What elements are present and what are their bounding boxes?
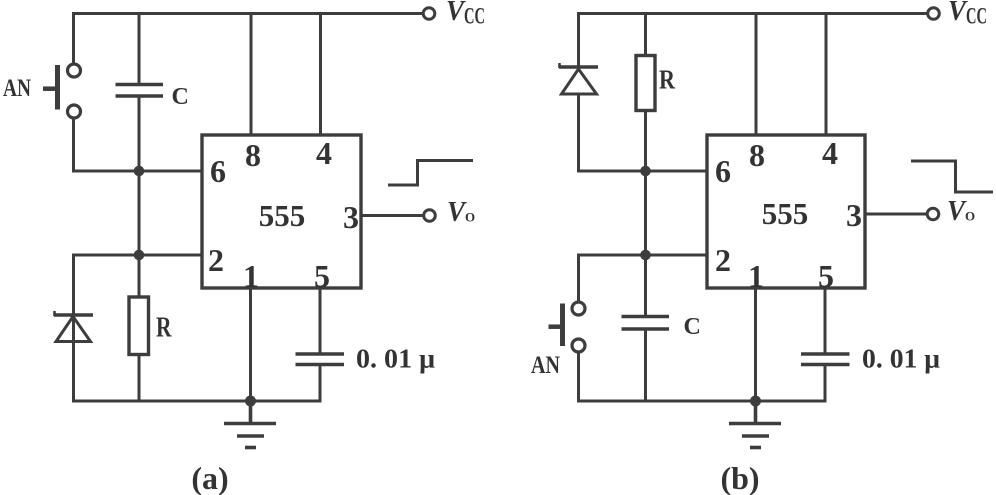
diode VD (b) [559, 63, 598, 94]
wire: R to bottom rail (a) [138, 355, 141, 402]
svg-text:AN: AN [531, 352, 560, 379]
wire: pin 3 output (b) [866, 213, 928, 216]
op-amp 555 box (b) [707, 135, 865, 288]
svg-text:C: C [684, 314, 701, 340]
svg-text:0. 01 μ: 0. 01 μ [356, 343, 435, 374]
capacitor 0.01u (b) [801, 354, 850, 401]
resistor R (b) [636, 56, 655, 111]
svg-text:3: 3 [846, 197, 862, 233]
wire: button to pin6 line (a) [72, 117, 75, 173]
svg-text:6: 6 [210, 153, 226, 189]
svg-text:5: 5 [314, 258, 330, 294]
wire: bottom rail (b) [577, 400, 827, 403]
junction dot pin6/C (a) [134, 166, 145, 177]
wire: pin 4 vertical (a) [319, 14, 322, 136]
waveform step-up (a) [388, 161, 473, 186]
wire: R down through junctions to cap C (b) [644, 111, 647, 317]
label Vcc (b) [948, 0, 987, 29]
wire: pin 5 vertical (b) [824, 288, 827, 354]
pin labels 555 (b) [715, 135, 862, 294]
resistor R branch top (b) [644, 14, 647, 56]
svg-text:0. 01 μ: 0. 01 μ [862, 343, 940, 374]
svg-text:O: O [965, 209, 975, 224]
pushbutton AN (a) [43, 64, 81, 118]
label Vcc (a) [446, 0, 485, 29]
terminal VCC (b) [928, 8, 940, 20]
label Vo (b) [947, 196, 975, 227]
ground (a) [224, 401, 276, 448]
capacitor C (b) [622, 317, 670, 402]
resistor R (a) [129, 297, 149, 355]
wire: pin 1 vertical (b) [754, 288, 757, 401]
wire: pin 8 vertical (a) [250, 14, 253, 136]
junction dot ground (b) [750, 396, 761, 407]
wire: pin 2 horizontal (b) [577, 254, 708, 257]
terminal Vo (a) [424, 210, 436, 222]
svg-text:R: R [659, 65, 675, 95]
waveform step-down (b) [911, 161, 993, 192]
wire: pin 2 horizontal (a) [72, 254, 203, 257]
svg-text:555: 555 [762, 196, 809, 231]
wire: bottom rail (a) [72, 400, 322, 403]
svg-text:CC: CC [966, 4, 987, 29]
wire: left rail top to button (a) [72, 12, 75, 64]
wire: pin 1 vertical (a) [249, 288, 252, 401]
svg-text:555: 555 [259, 198, 306, 233]
svg-text:2: 2 [208, 242, 224, 278]
svg-text:4: 4 [316, 135, 332, 171]
svg-text:1: 1 [748, 258, 764, 294]
capacitor 0.01u (a) [296, 354, 345, 401]
pin labels 555 (a) [208, 135, 359, 294]
svg-text:8: 8 [749, 137, 765, 173]
wire: left drop to diode (a) [72, 254, 75, 403]
svg-text:(b): (b) [720, 460, 759, 495]
wire: left rail to diode (b) [577, 12, 580, 67]
svg-text:CC: CC [464, 4, 485, 29]
op-amp 555 box (a) [202, 135, 361, 288]
ground (b) [729, 401, 781, 448]
diode VD (a) [54, 311, 93, 342]
wire: top VCC rail (b) [577, 12, 928, 15]
svg-text:6: 6 [715, 153, 731, 189]
terminal Vo (b) [927, 208, 939, 220]
pushbutton AN (b) [549, 302, 586, 352]
svg-text:AN: AN [3, 75, 31, 102]
wire: pin 8 vertical (b) [755, 14, 758, 136]
svg-text:O: O [465, 210, 475, 225]
svg-text:2: 2 [715, 242, 731, 278]
terminal VCC (a) [423, 8, 435, 20]
label Vo (a) [447, 197, 475, 228]
junction dot pin6/R (b) [640, 166, 651, 177]
wire: button to bottom rail (b) [577, 351, 580, 403]
wire: pin 3 output (a) [361, 214, 423, 217]
svg-text:5: 5 [818, 258, 834, 294]
svg-text:R: R [156, 312, 172, 344]
wire: top VCC rail (a) [72, 12, 423, 15]
svg-text:(a): (a) [191, 460, 228, 495]
svg-text:8: 8 [245, 137, 261, 173]
wire: pin 6 horizontal (a) [72, 170, 203, 173]
wire: pin2 corner down to button (b) [577, 254, 580, 303]
junction dot pin2/R (a) [134, 250, 145, 261]
svg-text:C: C [172, 84, 189, 110]
svg-text:1: 1 [243, 258, 259, 294]
wire: pin 4 vertical (b) [825, 14, 828, 136]
junction dot ground (a) [245, 396, 256, 407]
wire: diode down and corner to pin6 (b) [579, 94, 708, 172]
capacitor C (a) [116, 14, 164, 298]
svg-text:3: 3 [343, 199, 359, 235]
junction dot pin2 (b) [640, 250, 651, 261]
wire: pin 5 vertical (a) [319, 288, 322, 354]
svg-text:4: 4 [822, 135, 838, 171]
